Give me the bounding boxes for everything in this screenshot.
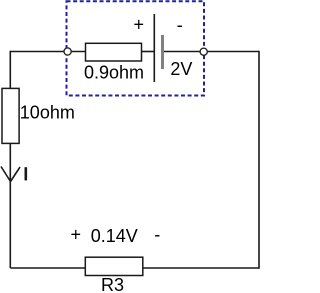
svg-text:0.9ohm: 0.9ohm: [84, 62, 144, 82]
svg-text:-: -: [177, 15, 183, 35]
svg-text:0.14V: 0.14V: [91, 226, 138, 246]
svg-text:+: +: [71, 225, 82, 245]
svg-text:-: -: [154, 224, 160, 244]
svg-text:R3: R3: [101, 275, 124, 293]
svg-text:10ohm: 10ohm: [20, 102, 75, 122]
svg-text:+: +: [134, 15, 145, 35]
svg-text:2V: 2V: [170, 59, 192, 79]
